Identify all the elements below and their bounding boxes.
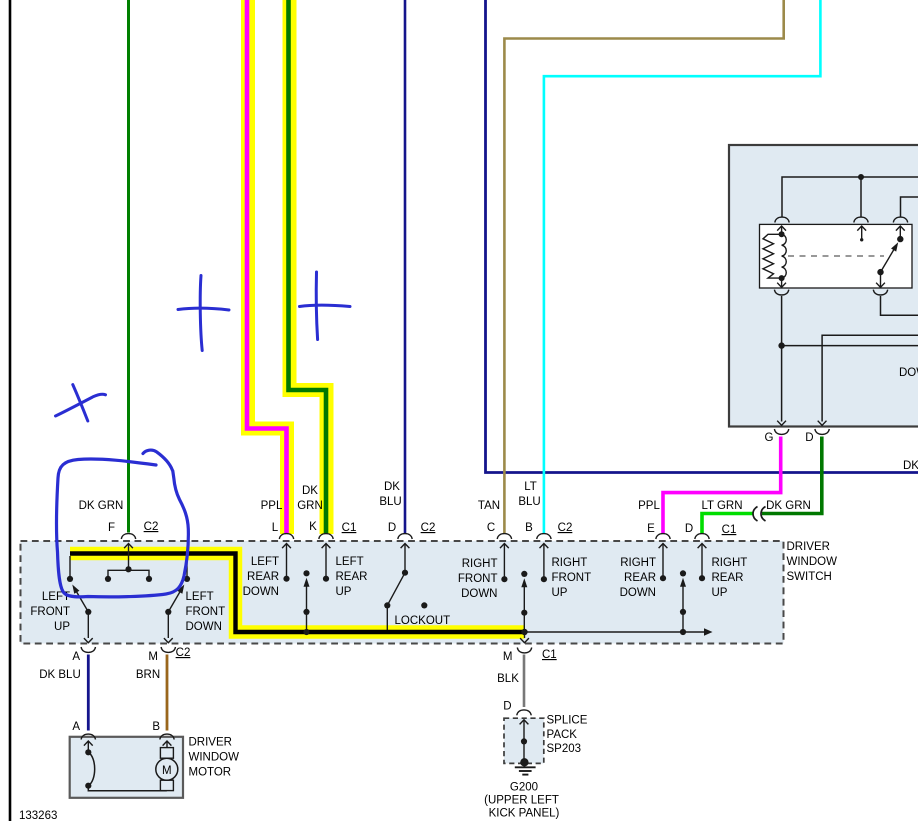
pin arrow D C1 + contact [698, 544, 707, 549]
svg-text:TAN: TAN [478, 500, 500, 512]
wire: to motor bottom terminal [88, 786, 167, 791]
wire: junction to right edge [782, 345, 918, 347]
wire: junction down to pin M [524, 632, 526, 638]
svg-text:LT GRN: LT GRN [701, 500, 742, 512]
node: coil bottom [779, 275, 785, 281]
pin arrow F [124, 544, 133, 549]
wire: LT GRN to connector D C1 [702, 514, 753, 534]
pin arrow L + contact [282, 544, 291, 549]
svg-text:G: G [765, 432, 774, 444]
svg-text:LEFT: LEFT [186, 591, 214, 603]
svg-text:DK GRN: DK GRN [79, 500, 124, 512]
connector cap M C2 (box bottom) [161, 647, 175, 652]
svg-text:C1: C1 [542, 649, 557, 661]
connector cap D [815, 429, 829, 434]
wire: BRN to motor B [166, 655, 169, 731]
connector cap D (splice) [517, 710, 531, 715]
svg-text:F: F [108, 522, 115, 534]
svg-text:DK: DK [302, 485, 318, 497]
pin arrow: D exit [818, 421, 827, 426]
svg-text:C2: C2 [144, 521, 159, 533]
svg-text:A: A [72, 651, 80, 663]
node: junction on G wire [778, 342, 784, 348]
svg-text:G200: G200 [510, 782, 538, 794]
connector cap M C1 (box bottom) [517, 648, 531, 653]
svg-text:SP203: SP203 [547, 743, 582, 755]
window switch internal module box (top right) [729, 145, 918, 427]
wire highlight: yellow over PPL feed [248, 0, 287, 534]
svg-text:BLU: BLU [379, 496, 401, 508]
svg-text:DOWN: DOWN [186, 621, 222, 633]
node: left front down pivot [165, 609, 171, 615]
svg-text:D: D [805, 432, 813, 444]
connector cap D C2 [398, 534, 412, 539]
svg-text:C2: C2 [421, 522, 436, 534]
svg-text:DOWN: DOWN [620, 587, 656, 599]
svg-text:UP: UP [552, 587, 568, 599]
connector cap A (box bottom) [81, 647, 95, 652]
svg-text:REAR: REAR [624, 572, 656, 584]
svg-text:KICK PANEL): KICK PANEL) [489, 808, 560, 820]
relay actuating dashed link [788, 255, 884, 257]
svg-text:UP: UP [336, 586, 352, 598]
node: motor switch bottom [85, 783, 91, 789]
svg-text:WINDOW: WINDOW [787, 556, 838, 568]
pin arrow: relay common [857, 226, 866, 231]
pin arrow C + contact [500, 544, 509, 549]
highlighted bus: black wire [70, 554, 525, 633]
splice hop symbol [753, 507, 766, 522]
wire: pivot to pin M [167, 612, 169, 638]
wire: TAN to connector C C2 [504, 0, 783, 533]
svg-text:LEFT: LEFT [336, 556, 364, 568]
pin arrow: relay NO contact [896, 226, 905, 231]
svg-text:REAR: REAR [712, 572, 744, 584]
svg-text:RIGHT: RIGHT [712, 557, 748, 569]
node: left rear pivot [303, 609, 309, 615]
svg-text:DK GRN: DK GRN [766, 500, 811, 512]
pin arrow D (lockout) [401, 544, 410, 549]
pin: relay common exit [880, 272, 882, 287]
svg-text:REAR: REAR [336, 571, 368, 583]
svg-text:C: C [487, 522, 495, 534]
right front switch arm [523, 583, 525, 632]
motor M terminals [160, 748, 173, 759]
connector cap B [537, 534, 551, 539]
wire highlight: yellow over DK GRN feed [290, 0, 327, 534]
annotation: blue plus 1 [200, 276, 202, 351]
svg-text:LT: LT [524, 481, 537, 493]
wire: F stem to common node [128, 544, 130, 570]
svg-text:K: K [309, 521, 317, 533]
annotation: blue X mark [56, 394, 106, 416]
node: splice junction [521, 738, 527, 744]
svg-text:C2: C2 [176, 647, 191, 659]
svg-text:LEFT: LEFT [251, 556, 279, 568]
driver window switch box [21, 541, 784, 644]
svg-text:D: D [685, 523, 693, 535]
svg-text:RIGHT: RIGHT [462, 558, 498, 570]
node: bus junction M [521, 629, 527, 635]
connector cap C [497, 534, 511, 539]
pin: coil bottom exit [781, 278, 783, 287]
node: lockout open contact [421, 602, 427, 608]
svg-text:DRIVER: DRIVER [189, 737, 232, 749]
node: lockout pivot [402, 570, 408, 576]
wire: module top bus [782, 177, 918, 217]
node: coil top [779, 231, 785, 237]
node: relay NO contact [897, 236, 903, 242]
svg-text:SPLICE: SPLICE [547, 715, 588, 727]
pin arrow D (splice) [520, 720, 529, 725]
motor M circle [156, 758, 178, 780]
svg-text:PACK: PACK [547, 729, 578, 741]
wire: bus drop to down contact [186, 556, 188, 576]
wire: PPL to connector L C1 [247, 0, 287, 533]
pin arrow E + contact [659, 544, 668, 549]
lockout switch arm [387, 573, 405, 606]
svg-text:RIGHT: RIGHT [552, 557, 588, 569]
svg-text:UP: UP [712, 587, 728, 599]
wire: BLK from M C1 to splice [523, 655, 526, 708]
wire: from right edge down to D pin [822, 335, 918, 421]
svg-text:M: M [162, 765, 172, 777]
svg-text:BLK: BLK [497, 673, 519, 685]
annotation: blue loop around F circuit [57, 459, 189, 597]
svg-text:FRONT: FRONT [458, 573, 498, 585]
svg-text:C2: C2 [558, 522, 573, 534]
node: right rear pivot [680, 609, 686, 615]
wire: bus tail to right arrow [525, 631, 709, 633]
left rear switch arm [306, 583, 308, 633]
highlighted bus: yellow [70, 554, 525, 633]
wire: DK GRN to connector K C1 [289, 0, 327, 533]
connector cap E [656, 534, 670, 539]
svg-text:(UPPER LEFT: (UPPER LEFT [484, 795, 559, 807]
svg-text:D: D [388, 522, 396, 534]
svg-text:UP: UP [54, 621, 70, 633]
driver window motor box [70, 737, 183, 798]
relay case (white box) [760, 224, 913, 288]
wire: lockout contact to bus [386, 605, 388, 630]
svg-text:B: B [525, 522, 533, 534]
connector cap G [774, 429, 788, 434]
svg-text:DOWN: DOWN [243, 586, 279, 598]
svg-text:LOCKOUT: LOCKOUT [395, 615, 451, 627]
node: F common [125, 566, 131, 572]
connector cap: relay common pin [854, 217, 868, 222]
ground G200 [523, 762, 525, 767]
svg-text:DOWN: DOWN [461, 588, 497, 600]
connector cap F [121, 534, 135, 539]
motor switch arc [88, 752, 94, 785]
svg-text:GRN: GRN [297, 500, 323, 512]
connector cap K [319, 534, 333, 539]
svg-text:FRONT: FRONT [552, 572, 592, 584]
connector cap A (motor) [81, 734, 95, 739]
node: left front up pivot [85, 609, 91, 615]
wire: drop from bus to relay common [860, 177, 862, 217]
svg-text:PPL: PPL [638, 500, 660, 512]
left front up switch arm [76, 590, 89, 612]
node: right front pivot [521, 610, 527, 616]
svg-text:WINDOW: WINDOW [189, 752, 240, 764]
svg-text:A: A [72, 721, 80, 733]
pin arrow B (motor) [163, 741, 172, 746]
connector cap: relay coil pin [775, 217, 789, 222]
wire: DK BLU to motor A [87, 655, 90, 731]
svg-text:DRIVER: DRIVER [787, 541, 830, 553]
svg-text:DK B: DK B [903, 460, 918, 472]
svg-text:BLU: BLU [518, 496, 540, 508]
node: right rear bus junction [680, 629, 686, 635]
node: motor switch top [85, 749, 91, 755]
wire: pivot to pin A [87, 612, 89, 638]
svg-text:PPL: PPL [261, 500, 283, 512]
annotation: blue plus 2 [316, 272, 317, 340]
connector cap: relay NO pin [893, 217, 907, 222]
wire: bus drop left to up contact [69, 556, 71, 576]
svg-text:FRONT: FRONT [186, 606, 226, 618]
wire: LT BLU to connector B C2 [544, 0, 821, 533]
connector cap L [279, 534, 293, 539]
svg-text:B: B [152, 721, 160, 733]
svg-text:RIGHT: RIGHT [620, 557, 656, 569]
node: left rear bus junction [303, 629, 309, 635]
node: relay arm pivot [877, 269, 883, 275]
pin arrow A (motor) [84, 741, 93, 746]
wire: left page border line [9, 0, 12, 821]
left front down switch arm [168, 590, 181, 612]
left front switch common bar [108, 570, 149, 578]
wire: DK GRN from D down-left [762, 437, 822, 514]
node: left front up contact [67, 576, 73, 582]
wire: DK GRN to connector F C2 [127, 0, 130, 533]
svg-text:DOWN: DOWN [899, 367, 918, 379]
pin arrow K + contact [322, 544, 331, 549]
wire: DK BLU horizontal exiting right [486, 0, 918, 473]
relay coil winding bumps [782, 234, 787, 278]
svg-text:E: E [647, 523, 655, 535]
wire: coil return down to G [781, 296, 783, 422]
svg-text:C1: C1 [342, 522, 357, 534]
connector cap D C1 [695, 534, 709, 539]
pin arrow: G exit [777, 421, 786, 426]
svg-text:133263: 133263 [19, 810, 57, 821]
splice pack box [504, 718, 544, 763]
wire: PPL from G down-left to connector E [663, 437, 781, 534]
svg-text:L: L [272, 522, 279, 534]
svg-text:BRN: BRN [136, 669, 160, 681]
wire: DK BLU to connector D C2 [404, 0, 407, 533]
node: left front down contact [184, 576, 190, 582]
pin arrow: coil top [777, 226, 786, 231]
node: junction on top bus [858, 174, 864, 180]
connector cap B (motor) [160, 734, 174, 739]
node: ground junction [520, 758, 528, 766]
svg-text:M: M [148, 651, 158, 663]
pin arrow B + contact [540, 544, 549, 549]
svg-text:DK BLU: DK BLU [39, 669, 81, 681]
svg-text:D: D [503, 701, 511, 713]
relay switch arm [881, 249, 895, 273]
wire: relay common to right edge [881, 296, 918, 315]
node: lockout closed contact [384, 602, 390, 608]
svg-text:C1: C1 [722, 524, 737, 536]
svg-text:MOTOR: MOTOR [189, 767, 232, 779]
svg-text:REAR: REAR [247, 571, 279, 583]
svg-text:FRONT: FRONT [30, 606, 70, 618]
right rear switch arm [682, 583, 684, 633]
wire: feed from right edge to relay NO pin [901, 197, 918, 217]
svg-text:SWITCH: SWITCH [787, 571, 832, 583]
svg-text:DK: DK [384, 481, 400, 493]
relay coil resistor zigzag [763, 234, 782, 278]
svg-text:M: M [503, 651, 513, 663]
